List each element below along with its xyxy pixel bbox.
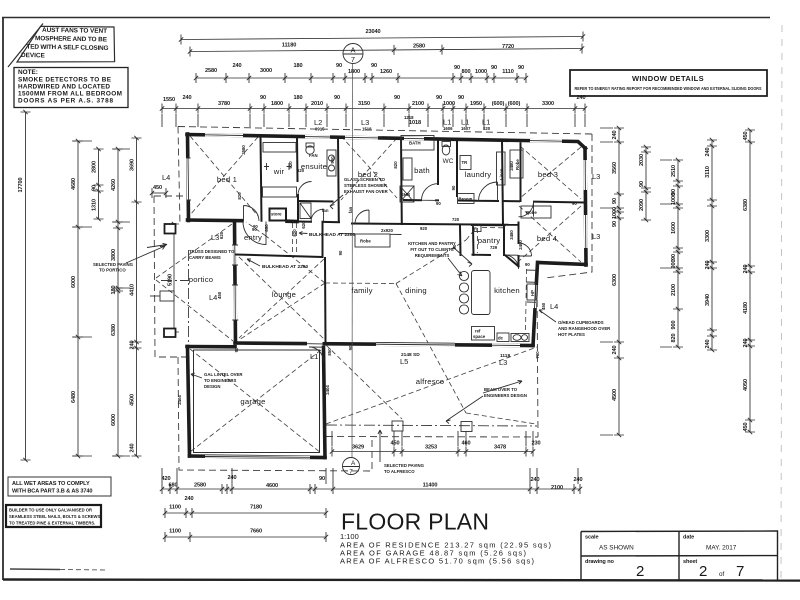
interior wall: kitchen north nib / pantry south bbox=[473, 226, 482, 232]
wir shelving bbox=[263, 143, 296, 153]
dimension column left: 4260/3800/180/6380 bbox=[111, 147, 123, 458]
extension lines bottom row up to plan bbox=[162, 468, 578, 484]
interior wall: lounge east nib bbox=[324, 258, 327, 343]
svg-text:4050: 4050 bbox=[743, 379, 749, 391]
dimension row: alfresco 3629/450/3253/460/3478/230 bbox=[330, 441, 541, 457]
door arc: bed4 bbox=[519, 243, 532, 256]
svg-text:240: 240 bbox=[705, 339, 711, 348]
svg-text:lounge: lounge bbox=[272, 290, 296, 299]
svg-text:2100: 2100 bbox=[551, 485, 563, 491]
svg-text:1550: 1550 bbox=[163, 97, 175, 103]
svg-text:space: space bbox=[473, 334, 486, 339]
svg-text:90: 90 bbox=[458, 95, 464, 101]
svg-text:90: 90 bbox=[338, 250, 343, 255]
svg-text:6380: 6380 bbox=[743, 199, 749, 211]
window: bed1 west bbox=[186, 158, 190, 200]
svg-text:920: 920 bbox=[288, 161, 293, 169]
svg-text:laundry: laundry bbox=[465, 170, 492, 179]
svg-text:alfresco: alfresco bbox=[416, 377, 445, 386]
svg-text:ENGINEERS DESIGN: ENGINEERS DESIGN bbox=[484, 393, 527, 398]
svg-text:(600): (600) bbox=[508, 101, 521, 107]
svg-text:3300: 3300 bbox=[705, 230, 711, 242]
bed3 robe bbox=[510, 150, 523, 178]
window labels L2 L3 1018 L1 L1 L1 bbox=[314, 118, 491, 132]
roof diagonal bed4 X bbox=[519, 206, 581, 262]
dimension row bottom 1: 420/680/2580/240/4600/90/11400/240/2100/240 bbox=[160, 475, 583, 494]
door arc: wc bbox=[422, 184, 439, 201]
svg-text:bed 1: bed 1 bbox=[217, 175, 237, 184]
svg-text:AS SHOWN: AS SHOWN bbox=[599, 545, 634, 552]
extension lines alfresco row bbox=[332, 431, 533, 446]
extension lines right chains toward plan bbox=[600, 128, 672, 435]
angled wall pantry|bed4 corner bbox=[506, 223, 519, 267]
door arc: laundry bbox=[479, 182, 498, 201]
window: bed4 east bbox=[584, 215, 588, 248]
svg-text:BATH: BATH bbox=[409, 141, 421, 146]
svg-text:240: 240 bbox=[182, 95, 191, 101]
svg-text:L3: L3 bbox=[592, 172, 600, 181]
svg-text:6300: 6300 bbox=[612, 274, 618, 286]
door arc: entry bbox=[243, 222, 266, 245]
dimension column right: 2510/90/1000/1600/90/900/2100/820 bbox=[671, 158, 683, 349]
svg-text:DOORS AS PER A.S. 3788: DOORS AS PER A.S. 3788 bbox=[18, 98, 113, 105]
svg-text:bed 4: bed 4 bbox=[537, 234, 558, 243]
interior wall: lounge north bbox=[236, 222, 323, 257]
svg-text:TRUSS DESIGNED TO: TRUSS DESIGNED TO bbox=[189, 249, 235, 254]
svg-text:900: 900 bbox=[671, 259, 677, 268]
interior wall: bed2/bath south (hall north) bbox=[352, 224, 518, 225]
svg-text:2580: 2580 bbox=[413, 44, 425, 50]
roof diagonal bed2 X bbox=[341, 136, 397, 200]
svg-text:WINDOW DETAILS: WINDOW DETAILS bbox=[632, 74, 704, 83]
annotation: beam over to engineers design bbox=[446, 381, 527, 424]
ensuite fixtures: toilet fan vanity shower bbox=[299, 143, 336, 219]
svg-text:2030: 2030 bbox=[639, 154, 645, 166]
label 450 / L4 left bbox=[150, 173, 171, 198]
svg-text:5190: 5190 bbox=[168, 274, 174, 286]
svg-text:FIT OUT TO CLIENTS: FIT OUT TO CLIENTS bbox=[410, 247, 453, 252]
svg-text:820: 820 bbox=[393, 161, 398, 169]
svg-text:DESIGN: DESIGN bbox=[204, 384, 220, 389]
svg-text:KITCHEN AND PANTRY: KITCHEN AND PANTRY bbox=[408, 241, 456, 246]
svg-text:bed 3: bed 3 bbox=[538, 170, 558, 179]
svg-text:17700: 17700 bbox=[18, 177, 24, 192]
svg-text:1000: 1000 bbox=[612, 207, 618, 219]
svg-text:4500: 4500 bbox=[612, 389, 618, 401]
svg-text:180: 180 bbox=[293, 63, 302, 69]
svg-text:450: 450 bbox=[541, 302, 546, 310]
note box: all wet areas bbox=[8, 477, 111, 496]
svg-text:Robe: Robe bbox=[515, 159, 520, 170]
interior wall: laundry south / broom bbox=[459, 200, 498, 203]
svg-text:date: date bbox=[683, 535, 694, 541]
svg-text:1000: 1000 bbox=[671, 193, 677, 205]
svg-text:90: 90 bbox=[336, 63, 342, 69]
garage door opening L1 (north wall) bbox=[307, 341, 323, 346]
dimension column: 17700 overall left bbox=[18, 110, 31, 462]
svg-text:7180: 7180 bbox=[250, 505, 262, 511]
annotation: truss designed to carry beams bbox=[189, 249, 235, 260]
svg-text:L3: L3 bbox=[499, 358, 507, 367]
svg-text:EXHAUST FAN OVER: EXHAUST FAN OVER bbox=[344, 189, 389, 194]
svg-text:pantry: pantry bbox=[478, 236, 501, 245]
svg-text:240: 240 bbox=[576, 95, 585, 101]
dimension row: 23040 overall bbox=[179, 29, 585, 45]
svg-text:90: 90 bbox=[92, 185, 98, 191]
svg-text:240: 240 bbox=[232, 63, 241, 69]
dimension column right: 240/2030/90/2090 bbox=[639, 145, 651, 222]
roof diagonal garage X bbox=[190, 349, 321, 453]
label: L4 kitchen east bbox=[541, 302, 558, 311]
svg-text:7: 7 bbox=[736, 563, 744, 580]
garage eaves dashed left/bottom bbox=[178, 357, 372, 471]
window: bath north bbox=[404, 137, 424, 141]
svg-text:kitchen: kitchen bbox=[494, 286, 520, 295]
svg-text:1800: 1800 bbox=[271, 101, 283, 107]
svg-text:AUST FANS TO VENT: AUST FANS TO VENT bbox=[42, 27, 107, 35]
svg-text:REQUIREMENTS: REQUIREMENTS bbox=[415, 253, 450, 258]
svg-text:1606: 1606 bbox=[443, 126, 453, 131]
svg-text:SELECTED PAVING: SELECTED PAVING bbox=[384, 463, 425, 468]
note box: smoke detectors bbox=[14, 68, 128, 108]
svg-text:L1: L1 bbox=[310, 352, 318, 361]
door arc: garage L1 bbox=[309, 347, 324, 362]
svg-text:GAL LINTEL OVER: GAL LINTEL OVER bbox=[204, 372, 243, 377]
interior wall: ensuite|bed2 bbox=[337, 137, 340, 222]
interior wall: bath|laundry bbox=[437, 140, 439, 185]
svg-text:AND RANGEHOOD OVER: AND RANGEHOOD OVER bbox=[558, 326, 611, 331]
svg-text:O/HEAD CUPBOARDS: O/HEAD CUPBOARDS bbox=[558, 320, 604, 325]
window: ensuite north bbox=[305, 135, 330, 139]
bed2 robe bbox=[339, 228, 402, 247]
svg-text:90: 90 bbox=[334, 95, 340, 101]
eaves dashed outline top bbox=[178, 127, 592, 135]
svg-text:fan: fan bbox=[348, 206, 353, 213]
svg-text:6000: 6000 bbox=[71, 276, 77, 288]
svg-text:4500: 4500 bbox=[130, 394, 136, 406]
svg-text:90: 90 bbox=[319, 476, 325, 482]
svg-text:90: 90 bbox=[253, 224, 258, 229]
door arc: bed1 bbox=[244, 206, 260, 221]
svg-text:2100: 2100 bbox=[671, 284, 677, 296]
interior wall: bed3|bed4 bbox=[503, 143, 585, 202]
svg-text:FAN: FAN bbox=[309, 153, 318, 158]
svg-text:1100: 1100 bbox=[169, 505, 181, 511]
svg-text:sheet: sheet bbox=[683, 559, 697, 565]
window: kitchen east bbox=[535, 285, 536, 308]
svg-text:L5: L5 bbox=[400, 357, 408, 366]
svg-text:6380: 6380 bbox=[111, 324, 117, 336]
svg-text:WC: WC bbox=[443, 158, 454, 165]
svg-text:REFER TO ENERGY RATING REPORT: REFER TO ENERGY RATING REPORT FOR RECOMM… bbox=[575, 86, 762, 91]
door arc: bed2 bbox=[355, 210, 369, 224]
section marker A (bottom) bbox=[343, 458, 360, 476]
svg-text:SMOKE DETECTORS TO BE: SMOKE DETECTORS TO BE bbox=[18, 77, 112, 84]
svg-text:SHR: SHR bbox=[401, 192, 411, 197]
svg-text:90: 90 bbox=[525, 262, 530, 267]
svg-text:90: 90 bbox=[639, 181, 645, 187]
portico dash-dot roofline bbox=[161, 250, 189, 346]
dimension column left: 3690/4410/240/4500 bbox=[130, 136, 142, 458]
L3 labels right of plan bbox=[592, 172, 600, 241]
svg-text:dining: dining bbox=[405, 286, 427, 295]
window: bed3 east bbox=[584, 160, 588, 190]
svg-text:ref: ref bbox=[475, 329, 481, 334]
dimension column left: 2800/90/1310 bbox=[92, 147, 104, 221]
svg-text:HP: HP bbox=[530, 290, 535, 296]
svg-text:3478: 3478 bbox=[494, 445, 506, 451]
bed4 robe bbox=[521, 206, 551, 218]
svg-text:7: 7 bbox=[349, 469, 353, 476]
svg-text:3780: 3780 bbox=[218, 101, 230, 107]
svg-text:TO TREATED PINE & EXTERNAL TIM: TO TREATED PINE & EXTERNAL TIMBERS. bbox=[9, 521, 95, 526]
eaves dashed outline right bbox=[545, 134, 592, 278]
svg-text:620: 620 bbox=[219, 231, 224, 239]
exterior wall: entry/portico east bbox=[235, 223, 236, 344]
svg-text:2090: 2090 bbox=[639, 199, 645, 211]
sliding door L5 south bbox=[376, 343, 455, 347]
dimension column right: 240/3560/90/1000/90/6300/240/4500 bbox=[612, 126, 624, 437]
window: bed3 north bbox=[530, 139, 562, 143]
exterior wall: south (lounge/family/kitchen) bbox=[235, 343, 533, 346]
roof hip lines family/dining bbox=[239, 236, 466, 413]
svg-text:240: 240 bbox=[612, 130, 618, 139]
door arc: ensuite bbox=[311, 209, 324, 222]
roof diagonal portico bbox=[156, 224, 233, 341]
annotation: bulkhead at 2200 (hall) bbox=[293, 223, 356, 254]
svg-text:729: 729 bbox=[490, 245, 498, 250]
section line A (vertical) bbox=[351, 64, 354, 458]
svg-text:TO ENGINEERS: TO ENGINEERS bbox=[204, 378, 237, 383]
annotation: gal lintel over bbox=[191, 372, 243, 389]
svg-text:3800: 3800 bbox=[111, 249, 117, 261]
window: bed1 north bbox=[205, 133, 243, 137]
svg-text:4260: 4260 bbox=[111, 179, 117, 191]
roof diagonal bed1 X bbox=[190, 136, 258, 216]
svg-text:420: 420 bbox=[161, 476, 170, 482]
svg-text:180: 180 bbox=[293, 95, 302, 101]
svg-text:3560: 3560 bbox=[612, 162, 618, 174]
svg-text:450: 450 bbox=[390, 441, 399, 447]
svg-text:90: 90 bbox=[491, 65, 497, 71]
svg-text:wir: wir bbox=[273, 167, 285, 176]
svg-text:DEVICE: DEVICE bbox=[21, 52, 46, 59]
dimension column right outer: 450/6380/240/4180/240/4050/450 bbox=[743, 128, 755, 434]
svg-text:240: 240 bbox=[130, 443, 136, 452]
sheet border bottom bbox=[3, 580, 800, 581]
annotation: o/head cupboards bbox=[539, 310, 611, 337]
svg-text:7660: 7660 bbox=[250, 529, 262, 535]
roof diagonal bed3 X bbox=[520, 146, 581, 199]
svg-text:11180: 11180 bbox=[282, 43, 296, 49]
svg-text:240: 240 bbox=[184, 496, 193, 502]
portico dashed outline bbox=[154, 196, 186, 357]
annotation: kitchen and pantry fit out bbox=[408, 241, 472, 276]
svg-text:90: 90 bbox=[436, 95, 442, 101]
svg-text:3480: 3480 bbox=[509, 161, 514, 171]
dimension row 3 (2580 240 3000 180 ... ) bbox=[194, 63, 528, 83]
svg-text:90: 90 bbox=[454, 65, 460, 71]
svg-text:920: 920 bbox=[420, 226, 428, 231]
bath fixtures: BATH box / SHR / wc toilet bbox=[400, 136, 451, 203]
svg-text:4600: 4600 bbox=[266, 483, 278, 489]
svg-text:90: 90 bbox=[452, 244, 457, 249]
selected paving to portico bbox=[93, 246, 165, 273]
svg-text:WITH BCA PART 3.B & AS 3740: WITH BCA PART 3.B & AS 3740 bbox=[12, 489, 92, 495]
svg-text:1500MM FROM ALL BEDROOM: 1500MM FROM ALL BEDROOM bbox=[18, 91, 122, 98]
svg-text:1950: 1950 bbox=[470, 101, 482, 107]
svg-text:L4: L4 bbox=[550, 302, 558, 311]
section marker A (top) bbox=[343, 44, 363, 65]
svg-text:800: 800 bbox=[461, 69, 470, 75]
interior wall: laundry|bed3 bbox=[502, 140, 503, 225]
svg-text:2800: 2800 bbox=[92, 161, 98, 173]
annotation: bulkhead at 2200 (entry) bbox=[247, 259, 308, 270]
svg-text:2: 2 bbox=[636, 563, 644, 580]
svg-text:2404: 2404 bbox=[177, 395, 182, 405]
sheet border top bbox=[2, 17, 770, 19]
svg-text:90: 90 bbox=[612, 198, 618, 204]
label: L3 1118 (south window) bbox=[499, 353, 510, 367]
svg-text:3300: 3300 bbox=[542, 101, 554, 107]
svg-text:STEPLESS SHOWER: STEPLESS SHOWER bbox=[344, 183, 388, 188]
kitchen bench / sink / fridge bbox=[472, 269, 537, 342]
svg-text:2: 2 bbox=[699, 563, 707, 580]
stray scan line bottom-left bbox=[10, 568, 60, 571]
interior wall: ensuite south bbox=[298, 221, 339, 224]
svg-text:620: 620 bbox=[297, 168, 305, 173]
svg-text:2400: 2400 bbox=[518, 240, 523, 250]
windows: portico east wall marks bbox=[233, 245, 237, 320]
svg-text:3580: 3580 bbox=[241, 145, 246, 155]
svg-text:1260: 1260 bbox=[380, 69, 392, 75]
roof diagonal lounge X bbox=[239, 257, 324, 339]
annotation: glass screen bbox=[330, 177, 389, 209]
svg-text:23040: 23040 bbox=[365, 29, 380, 35]
svg-text:900: 900 bbox=[671, 320, 677, 329]
svg-text:of: of bbox=[719, 571, 725, 578]
alfresco paving dash-dot line bbox=[326, 425, 537, 426]
svg-text:90: 90 bbox=[260, 95, 266, 101]
svg-text:3150: 3150 bbox=[358, 101, 370, 107]
svg-text:2580: 2580 bbox=[194, 483, 206, 489]
sheet border left bbox=[2, 18, 4, 581]
title block bbox=[581, 531, 778, 580]
svg-text:NOTE:: NOTE: bbox=[18, 69, 38, 76]
svg-text:2x920: 2x920 bbox=[381, 228, 394, 233]
svg-text:1800: 1800 bbox=[348, 69, 360, 75]
svg-text:scale: scale bbox=[585, 535, 599, 541]
exterior wall: garage west bbox=[188, 347, 190, 457]
svg-text:L3: L3 bbox=[592, 232, 600, 241]
svg-text:900: 900 bbox=[330, 156, 335, 164]
svg-text:730: 730 bbox=[535, 351, 540, 359]
portico posts bbox=[165, 224, 176, 234]
exterior wall: kitchen east bbox=[533, 263, 538, 346]
svg-text:L4: L4 bbox=[162, 173, 170, 182]
svg-text:180: 180 bbox=[111, 285, 117, 294]
svg-text:1518: 1518 bbox=[362, 127, 372, 132]
svg-text:HARDWIRED AND LOCATED: HARDWIRED AND LOCATED bbox=[18, 84, 110, 91]
svg-text:bath: bath bbox=[414, 166, 430, 175]
svg-text:MAY. 2017: MAY. 2017 bbox=[706, 545, 737, 552]
svg-text:1600: 1600 bbox=[671, 222, 677, 234]
svg-text:1310: 1310 bbox=[92, 199, 98, 211]
svg-text:6000: 6000 bbox=[111, 414, 117, 426]
svg-text:240: 240 bbox=[612, 345, 618, 354]
dimension column right: 240/3110/3300/240/3940/240 bbox=[705, 138, 717, 352]
svg-text:90: 90 bbox=[394, 95, 400, 101]
svg-text:2010: 2010 bbox=[311, 101, 323, 107]
label: L5 2148 SD (sliding door) bbox=[400, 352, 420, 366]
exterior wall: bed1/wir south bbox=[188, 220, 298, 222]
svg-text:family: family bbox=[351, 286, 372, 295]
dimension row 4 (1550 240 3780 ...) bbox=[160, 95, 587, 114]
alfresco dashed right edge bbox=[326, 278, 538, 437]
svg-text:90: 90 bbox=[612, 221, 618, 227]
interior wall: pantry bbox=[472, 225, 505, 255]
note box: builder galvanised nails bbox=[6, 505, 101, 527]
svg-text:2100: 2100 bbox=[412, 101, 424, 107]
svg-text:620: 620 bbox=[301, 221, 306, 229]
interior wall: store box bbox=[270, 209, 287, 221]
dimension column left: 4680/6000/6480 bbox=[71, 139, 83, 458]
svg-text:90: 90 bbox=[671, 254, 677, 260]
alfresco posts bbox=[392, 421, 403, 431]
door arc: bed3 bbox=[519, 202, 534, 217]
svg-text:3110: 3110 bbox=[705, 166, 711, 178]
svg-text:1000: 1000 bbox=[475, 69, 487, 75]
svg-text:1018: 1018 bbox=[409, 120, 421, 126]
svg-text:90: 90 bbox=[451, 185, 456, 190]
extension lines left chains toward plan bbox=[72, 141, 130, 456]
svg-text:820: 820 bbox=[292, 229, 297, 237]
interior wall: bed1|wir bbox=[261, 136, 262, 221]
svg-text:90: 90 bbox=[371, 63, 377, 69]
extension lines row4 down to plan bbox=[162, 114, 585, 127]
exterior wall: bed4 south bbox=[538, 263, 586, 265]
svg-text:Robe: Robe bbox=[360, 239, 371, 244]
svg-text:3940: 3940 bbox=[705, 294, 711, 306]
svg-text:BUILDER TO USE ONLY GALVANISED: BUILDER TO USE ONLY GALVANISED OR bbox=[9, 508, 92, 513]
svg-text:portico: portico bbox=[189, 275, 213, 284]
exterior wall: garage north bbox=[187, 345, 235, 349]
dimension row bottom 3: 1100/7660 bbox=[163, 529, 328, 543]
svg-text:450: 450 bbox=[743, 131, 749, 140]
svg-text:3690: 3690 bbox=[130, 159, 136, 171]
svg-text:240: 240 bbox=[743, 264, 749, 273]
svg-text:4180: 4180 bbox=[743, 302, 749, 314]
svg-text:4680: 4680 bbox=[71, 178, 77, 190]
svg-text:450: 450 bbox=[153, 185, 162, 191]
svg-text:450: 450 bbox=[217, 291, 222, 299]
svg-text:11400: 11400 bbox=[423, 483, 438, 489]
svg-text:entry: entry bbox=[244, 233, 262, 242]
svg-text:CARRY BEAMS: CARRY BEAMS bbox=[189, 255, 221, 260]
interior wall: bed2|bath bbox=[400, 138, 403, 224]
interior wall: wir|ensuite bbox=[297, 136, 298, 221]
svg-text:7720: 7720 bbox=[502, 44, 514, 50]
svg-text:fan: fan bbox=[322, 208, 329, 213]
svg-text:2510: 2510 bbox=[671, 165, 677, 177]
hot water / meter marks left of bed1 bbox=[147, 244, 174, 302]
laundry fixtures: TR tub / broom / linen bbox=[458, 152, 506, 204]
dimension row bottom 2: 1100/240/7180 bbox=[163, 496, 328, 518]
svg-text:850: 850 bbox=[264, 224, 269, 232]
svg-text:240: 240 bbox=[530, 477, 539, 483]
exterior wall: bed1 west bbox=[188, 134, 189, 221]
svg-text:TO ALFRESCO: TO ALFRESCO bbox=[384, 469, 415, 474]
